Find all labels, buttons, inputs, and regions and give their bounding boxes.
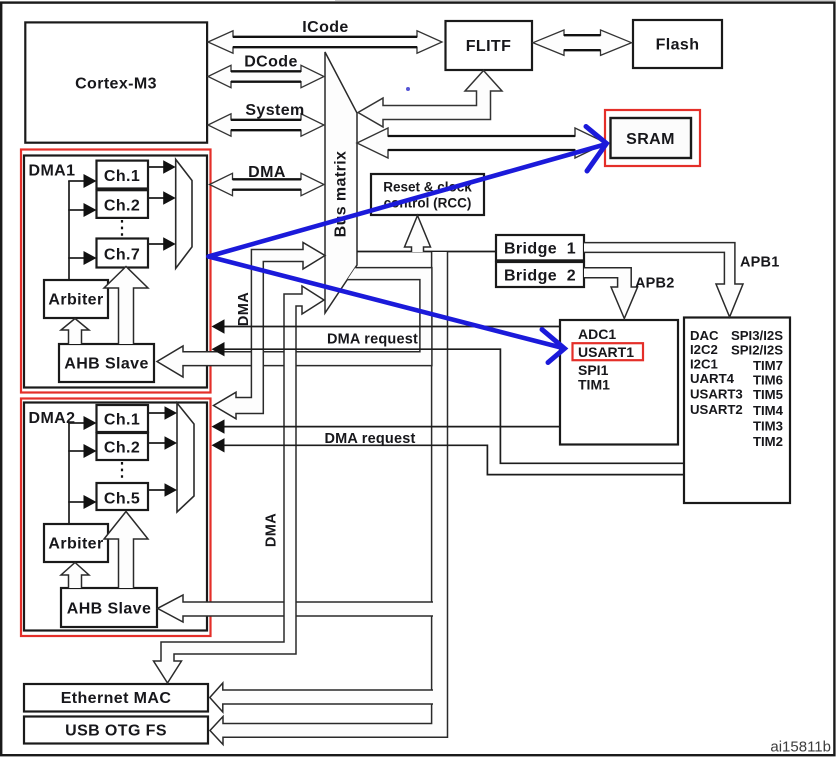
DMA1 channel Ch.7: [97, 239, 149, 268]
double arrow System: [208, 114, 324, 136]
Bridge 1 block: [496, 235, 584, 260]
DMA request wire APB1 to DMA1: [216, 349, 684, 463]
dotted ellipsis DMA1: [121, 220, 123, 238]
svg-text:ICode: ICode: [302, 19, 348, 36]
double arrow DMA: [210, 173, 325, 195]
branch hollow arrow into Ethernet MAC: [210, 683, 433, 712]
bus matrix: [325, 52, 357, 313]
wire Bridge 2 to APB2 arrow: [584, 268, 638, 319]
DMA1 funnel: [176, 159, 192, 268]
SRAM block highlighted red: [605, 110, 700, 166]
hollow arrow bus matrix to DMA1 AHB slave: [157, 268, 432, 377]
svg-text:USART1: USART1: [578, 344, 634, 360]
svg-text:FLITF: FLITF: [466, 38, 512, 55]
svg-text:APB1: APB1: [740, 255, 779, 271]
wire DMA1 Ch to funnel 1: [148, 166, 165, 168]
svg-text:DCode: DCode: [244, 54, 298, 71]
svg-text:ADC1: ADC1: [578, 326, 616, 342]
svg-text:Bridge 2: Bridge 2: [504, 268, 576, 285]
Flash block: [633, 20, 722, 68]
wire arbiter branch to DMA2 channel 3: [68, 501, 84, 503]
AHB slave DMA2: [61, 588, 157, 627]
wire arbiter branch to DMA1 channel 1: [68, 180, 84, 182]
arbiter trunk wire DMA2: [68, 423, 70, 524]
DMA channel B: bus matrix to Ethernet MAC arrow: [154, 286, 325, 683]
svg-text:ai15811b: ai15811b: [770, 739, 831, 756]
USB OTG FS block: [24, 717, 208, 744]
svg-text:DMA: DMA: [248, 164, 286, 181]
wire arbiter branch to DMA1 channel 2: [68, 209, 84, 211]
svg-text:SPI2/I2S: SPI2/I2S: [731, 342, 783, 357]
wire DMA1 Ch to funnel 2: [148, 197, 165, 199]
branch hollow arrow into DMA2 AHB slave: [158, 595, 434, 622]
hollow arrow AHB slave to arbiter DMA1: [61, 319, 89, 345]
svg-text:DMA1: DMA1: [29, 163, 76, 180]
double arrow FLITF-Flash: [533, 30, 632, 55]
arbiter trunk wire DMA1: [68, 181, 70, 280]
svg-text:Ch.2: Ch.2: [104, 198, 140, 215]
wire Bridge 1 to APB1 arrow: [584, 243, 743, 317]
DMA1 channel Ch.1: [97, 161, 149, 189]
svg-text:SPI3/I2S: SPI3/I2S: [731, 328, 783, 343]
svg-text:TIM4: TIM4: [753, 403, 784, 418]
svg-text:TIM3: TIM3: [753, 419, 783, 434]
svg-text:USB OTG FS: USB OTG FS: [65, 723, 167, 740]
svg-text:DMA: DMA: [236, 292, 252, 326]
DMA2 channel Ch.5: [97, 483, 149, 510]
svg-text:Ethernet MAC: Ethernet MAC: [61, 690, 172, 707]
svg-text:USART3: USART3: [690, 386, 743, 401]
svg-text:Bus matrix: Bus matrix: [332, 151, 349, 238]
wire DMA1 Ch to funnel 3: [148, 243, 165, 245]
wire arbiter branch to DMA2 channel 2: [68, 450, 84, 452]
double arrow bus matrix - SRAM: [357, 128, 606, 158]
wire DMA2 Ch to funnel 3: [148, 489, 166, 491]
svg-text:Cortex-M3: Cortex-M3: [75, 76, 157, 93]
DMA1 channel Ch.2: [97, 190, 149, 218]
svg-text:Ch.1: Ch.1: [104, 412, 140, 429]
wire arbiter branch to DMA2 channel 1: [68, 422, 84, 424]
blue arrow DMA to SRAM: [209, 127, 607, 257]
hollow arrow AHB slave to Ch.5: [104, 512, 148, 589]
Bridge 2 block: [496, 262, 584, 287]
APB2 peripherals block (ADC1/USART1/SPI1/TIM1): [560, 320, 678, 445]
svg-text:DMA request: DMA request: [324, 431, 415, 447]
svg-text:USART2: USART2: [690, 402, 743, 417]
DMA2 funnel: [177, 403, 194, 512]
DMA channel A: bus matrix to DMA2 funnel: [214, 243, 326, 419]
hollow arrow AHB slave to arbiter DMA2: [61, 563, 89, 589]
DMA request wire APB1 to DMA2: [216, 445, 684, 474]
bent double arrow FLITF - bus matrix: [358, 71, 502, 128]
DMA request wire APB2 to DMA1: [216, 326, 560, 328]
AHB riser channel down to USB OTG FS arrow: [210, 252, 448, 745]
svg-text:TIM1: TIM1: [578, 377, 610, 393]
wire arbiter branch to DMA1 channel 3: [68, 257, 84, 259]
FLITF block: [446, 21, 533, 70]
svg-text:Ch.1: Ch.1: [104, 168, 140, 185]
Cortex-M3 block: [25, 22, 207, 142]
DMA request wire APB2 to DMA2: [216, 426, 560, 428]
stray blue dot: [406, 87, 410, 91]
Reset & clock control (RCC) block: [371, 174, 484, 215]
double arrow DCode: [208, 65, 324, 87]
svg-text:TIM2: TIM2: [753, 434, 783, 449]
hollow arrow into RCC: [405, 216, 431, 253]
svg-text:Ch.7: Ch.7: [104, 247, 140, 264]
svg-text:Ch.2: Ch.2: [104, 440, 140, 457]
svg-text:AHB Slave: AHB Slave: [67, 601, 152, 618]
USART1 red highlight: [573, 343, 644, 360]
wire bus matrix to Bridge 1: [357, 251, 496, 253]
wire DMA2 Ch to funnel 2: [148, 442, 166, 444]
hollow arrow AHB slave to Ch.7: [104, 267, 148, 345]
svg-text:Arbiter: Arbiter: [48, 536, 103, 553]
svg-text:Flash: Flash: [656, 37, 700, 54]
svg-text:I2C1: I2C1: [690, 356, 718, 371]
svg-text:TIM7: TIM7: [753, 358, 783, 373]
wire DMA2 Ch to funnel 1: [148, 412, 166, 414]
svg-text:SRAM: SRAM: [626, 131, 675, 148]
svg-text:Bridge 1: Bridge 1: [504, 241, 576, 258]
DMA1 block (red): [21, 150, 211, 393]
DMA2 channel Ch.2: [97, 433, 149, 460]
arbiter DMA1: [44, 280, 108, 318]
svg-text:UART4: UART4: [690, 371, 735, 386]
Ethernet MAC block: [24, 684, 208, 712]
AHB slave DMA1: [59, 344, 154, 382]
svg-text:System: System: [245, 102, 304, 119]
double arrow ICode: [208, 31, 442, 53]
svg-text:I2C2: I2C2: [690, 342, 718, 357]
arbiter DMA2: [44, 524, 108, 562]
svg-text:Ch.5: Ch.5: [104, 491, 140, 508]
DMA2 block (red): [21, 399, 211, 637]
svg-text:DMA: DMA: [264, 513, 280, 547]
svg-text:AHB Slave: AHB Slave: [64, 356, 149, 373]
svg-text:TIM6: TIM6: [753, 372, 783, 387]
svg-text:DMA request: DMA request: [327, 332, 418, 348]
svg-text:APB2: APB2: [635, 276, 674, 292]
DMA2 channel Ch.1: [97, 405, 149, 432]
dotted ellipsis DMA2: [121, 462, 123, 481]
svg-text:TIM5: TIM5: [753, 387, 783, 402]
blue arrow DMA to USART1: [209, 257, 565, 363]
svg-text:Arbiter: Arbiter: [48, 292, 103, 309]
APB1 peripherals block (DAC..TIM2): [684, 318, 790, 504]
